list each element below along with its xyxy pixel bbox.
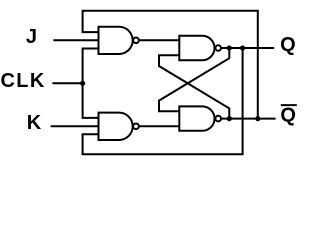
- svg-text:J: J: [26, 26, 37, 48]
- wire J input: [53, 39, 98, 41]
- nand gate U4 bottom-right 2-input: [179, 106, 214, 130]
- wire K input: [51, 125, 99, 127]
- nand gate U2 bottom-left 3-input: [99, 113, 133, 140]
- wire feedback Qbar top route: [83, 11, 258, 119]
- wire U1 output: [139, 39, 179, 41]
- bubble U1: [133, 37, 139, 43]
- nand gate U1 top-left 3-input: [99, 27, 133, 54]
- wire CLK input: [52, 82, 82, 84]
- overline of Qbar: [281, 104, 297, 106]
- svg-text:K: K: [27, 112, 42, 134]
- nand gate U3 top-right 2-input: [179, 36, 214, 60]
- wire cross-coupling Q to U4 upper input: [159, 48, 229, 111]
- svg-text:Q: Q: [280, 34, 296, 56]
- wire Qbar output: [221, 118, 275, 120]
- wire CLK vertical: [83, 49, 99, 118]
- junction dot CLK: [80, 81, 85, 86]
- bubble U4: [215, 116, 221, 122]
- wire cross-coupling Qbar to U3 lower input: [159, 55, 229, 118]
- svg-text:CLK: CLK: [1, 70, 46, 92]
- junction dot Qbar at feedback: [255, 116, 260, 121]
- svg-text:Q: Q: [280, 104, 296, 126]
- junction dot Qbar at cross-coupling: [227, 116, 232, 121]
- bubble U3: [215, 45, 221, 51]
- wire Q output: [221, 47, 274, 49]
- junction dot Q at cross-coupling: [227, 45, 232, 50]
- bubble U2: [133, 123, 139, 129]
- wire feedback Q bottom route: [83, 48, 243, 154]
- wire U2 output: [139, 125, 179, 127]
- junction dot Q at feedback: [240, 45, 245, 50]
